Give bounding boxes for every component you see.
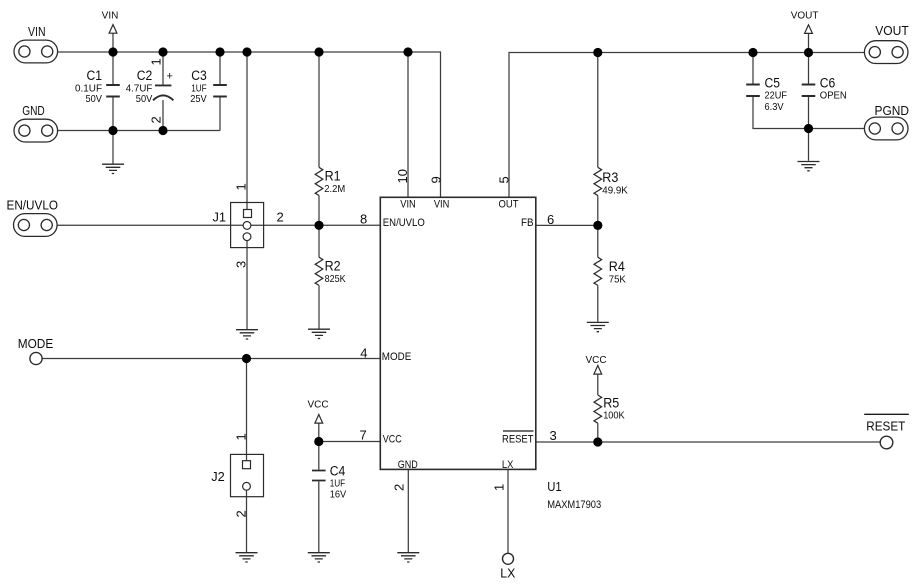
svg-text:VCC: VCC [307, 400, 328, 411]
svg-text:2: 2 [149, 116, 164, 123]
svg-text:VCC: VCC [585, 355, 606, 366]
svg-text:825K: 825K [325, 273, 346, 285]
svg-text:VIN: VIN [28, 24, 46, 39]
svg-text:U1: U1 [547, 479, 562, 494]
svg-text:50V: 50V [136, 93, 153, 105]
svg-text:GND: GND [22, 103, 45, 118]
svg-text:8: 8 [360, 211, 367, 226]
svg-text:PGND: PGND [875, 103, 910, 118]
svg-text:2: 2 [277, 210, 284, 225]
svg-text:FB: FB [521, 217, 534, 229]
svg-text:EN/UVLO: EN/UVLO [7, 197, 59, 212]
svg-text:25V: 25V [190, 93, 207, 105]
svg-text:+: + [167, 71, 173, 83]
svg-text:LX: LX [500, 565, 515, 580]
svg-text:VCC: VCC [383, 434, 402, 446]
svg-text:RESET: RESET [502, 434, 534, 446]
svg-text:49.9K: 49.9K [602, 185, 628, 197]
svg-text:3: 3 [233, 261, 248, 268]
svg-text:R1: R1 [325, 169, 341, 184]
svg-text:7: 7 [360, 428, 367, 443]
svg-text:VIN: VIN [434, 199, 450, 211]
svg-text:R5: R5 [603, 396, 619, 411]
svg-text:VIN: VIN [102, 11, 119, 22]
svg-text:C1: C1 [87, 68, 103, 83]
svg-text:LX: LX [502, 459, 514, 471]
svg-text:VOUT: VOUT [791, 11, 819, 22]
svg-text:R2: R2 [325, 259, 341, 274]
svg-text:1UF: 1UF [330, 477, 346, 489]
svg-text:RESET: RESET [866, 418, 905, 433]
svg-text:2.2M: 2.2M [324, 183, 345, 195]
svg-text:10: 10 [395, 169, 410, 183]
svg-text:VIN: VIN [400, 199, 416, 211]
svg-text:75K: 75K [609, 274, 626, 286]
svg-text:1: 1 [492, 484, 507, 491]
svg-text:OUT: OUT [499, 199, 519, 211]
svg-text:J1: J1 [213, 210, 227, 225]
svg-text:50V: 50V [86, 93, 103, 105]
svg-text:16V: 16V [330, 489, 347, 501]
svg-text:R4: R4 [609, 259, 625, 274]
svg-text:MODE: MODE [382, 351, 412, 363]
svg-text:J2: J2 [211, 469, 225, 484]
svg-text:2: 2 [233, 510, 248, 517]
svg-text:R3: R3 [602, 170, 618, 185]
svg-text:GND: GND [398, 459, 418, 471]
svg-text:5: 5 [496, 176, 511, 183]
svg-text:C6: C6 [820, 76, 836, 91]
svg-text:C5: C5 [765, 76, 781, 91]
svg-text:2: 2 [392, 484, 407, 491]
svg-text:4: 4 [360, 346, 367, 361]
svg-text:MAXM17903: MAXM17903 [547, 499, 601, 511]
svg-text:6: 6 [547, 212, 554, 227]
svg-text:OPEN: OPEN [820, 90, 847, 102]
svg-text:22UF: 22UF [765, 90, 788, 102]
svg-text:1: 1 [149, 58, 164, 65]
svg-text:C3: C3 [191, 68, 207, 83]
svg-text:EN/UVLO: EN/UVLO [383, 217, 425, 229]
svg-text:100K: 100K [603, 410, 625, 422]
svg-text:9: 9 [429, 176, 444, 183]
svg-text:C4: C4 [330, 464, 346, 479]
svg-text:6.3V: 6.3V [765, 101, 784, 113]
svg-text:1: 1 [233, 183, 248, 190]
svg-text:MODE: MODE [18, 336, 54, 351]
svg-text:VOUT: VOUT [875, 23, 909, 38]
svg-text:3: 3 [550, 428, 557, 443]
svg-text:C2: C2 [137, 68, 153, 83]
svg-text:1: 1 [233, 433, 248, 440]
